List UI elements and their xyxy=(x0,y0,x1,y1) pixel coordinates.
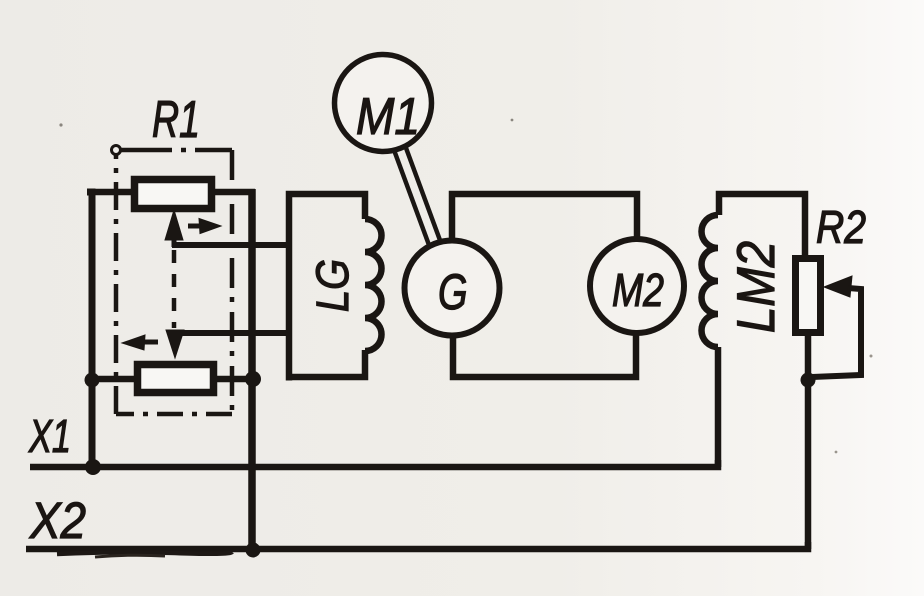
motor M2 circle xyxy=(590,239,684,333)
wiper arrow of R1b (points down into resistor body) xyxy=(166,330,184,358)
wire: R2 junction down to X2 line xyxy=(805,380,812,549)
terminal line X1 xyxy=(30,460,718,467)
svg-text:G: G xyxy=(438,265,468,320)
motion arrow of R1a (points right) xyxy=(188,219,221,234)
inductor LM2 bottom lead down to X1 line xyxy=(715,347,722,467)
wire: R2 bottom to junction xyxy=(805,332,812,380)
rheostat R2 wiper arrow and return wire xyxy=(812,276,861,377)
X2 line hand overdraw xyxy=(57,552,232,554)
junction dot: left bus / R1b left terminal xyxy=(85,373,100,388)
svg-text:LG: LG xyxy=(307,259,358,312)
resistor R1a (upper section of R1) xyxy=(135,180,212,209)
inductor LM2 top lead from node to coil xyxy=(719,194,805,256)
svg-text:R1: R1 xyxy=(152,91,200,149)
junction dot: left bus / X1 line xyxy=(85,459,101,475)
junction dot: R2 bottom / wiper return xyxy=(801,373,816,388)
mechanical link dashed line between R1a and R1b wipers xyxy=(172,250,177,328)
svg-text:LM2: LM2 xyxy=(727,241,786,333)
inductor LG coil humps xyxy=(365,219,382,351)
terminal circle on R1 box corner xyxy=(112,146,121,155)
wiper arrow of R1a (points up into resistor body) xyxy=(165,210,183,247)
wire: R1a right terminal to main vertical bus xyxy=(211,189,255,196)
wire: top link G to M2 xyxy=(452,194,637,241)
scan speck xyxy=(835,451,838,454)
resistor R1b (lower section of R1) xyxy=(138,365,214,393)
wire: left feed into resistor R1a xyxy=(87,189,133,196)
svg-text:M1: M1 xyxy=(356,88,420,146)
svg-text:X1: X1 xyxy=(28,410,71,462)
inductor LG bottom lead xyxy=(286,350,365,377)
wire: left vertical bus xyxy=(87,192,92,467)
svg-text:R2: R2 xyxy=(816,201,866,253)
wire: bottom link G to M2 xyxy=(453,333,636,377)
svg-text:X2: X2 xyxy=(29,492,86,549)
svg-text:M2: M2 xyxy=(612,264,664,316)
scan speck xyxy=(59,123,62,126)
wire: main vertical bus from R1a feed down to X2 xyxy=(248,189,256,551)
motion arrow of R1b (points left) xyxy=(122,335,158,350)
wire: R1b wiper to LG winding (node) xyxy=(172,330,292,336)
junction dot: main bus / R1b right terminal xyxy=(245,371,261,387)
scan speck xyxy=(870,355,873,358)
inductor LM2 coil humps (bulge left) xyxy=(702,215,719,347)
generator G circle xyxy=(405,241,500,336)
wire: left vertical bus to R1b xyxy=(91,376,137,383)
wire: R1b right terminal to main vertical bus xyxy=(214,376,252,383)
scan speck xyxy=(511,119,514,122)
motor M1 shaft (double line to G) xyxy=(394,147,440,246)
motor M1 circle xyxy=(335,55,432,152)
terminal line X2 xyxy=(26,542,808,549)
dash-dot enclosure box of dual rheostat R1 xyxy=(116,150,232,414)
resistor R2 (rheostat, vertical) xyxy=(796,259,821,333)
inductor LG frame (generator field winding) xyxy=(289,194,365,381)
wire: R1a wiper to LG winding (node) xyxy=(172,242,292,248)
junction dot: main bus / X2 line xyxy=(246,543,261,558)
